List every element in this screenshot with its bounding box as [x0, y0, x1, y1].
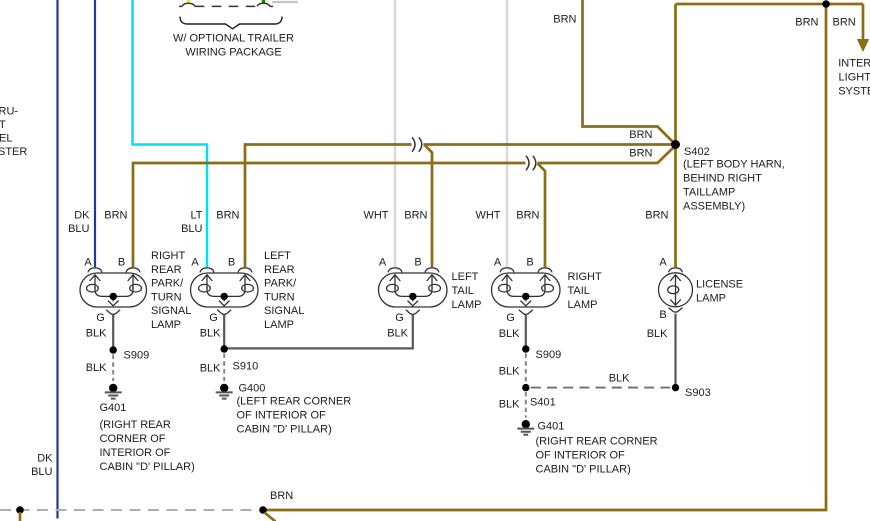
svg-text:B: B — [659, 309, 666, 321]
svg-text:ASSEMBLY): ASSEMBLY) — [683, 201, 745, 213]
wire BRN diagonal off-page — [265, 513, 276, 521]
svg-text:BRN: BRN — [216, 210, 239, 222]
wire BRN right edge drop (to bottom) — [263, 4, 826, 510]
svg-text:LIGHTING: LIGHTING — [839, 71, 870, 83]
svg-text:WIRING PACKAGE: WIRING PACKAGE — [185, 47, 281, 59]
ground G400 — [220, 384, 228, 392]
wire DK BLU (left, full height) — [56, 0, 58, 519]
lamp E3 left tail lamp — [379, 268, 448, 315]
splice S402 — [671, 140, 680, 149]
svg-text:BLK: BLK — [499, 366, 520, 378]
svg-text:G: G — [506, 312, 515, 324]
svg-text:BRN: BRN — [629, 147, 652, 159]
wire BRN stub down (bottom-left) — [19, 512, 22, 521]
wire BLK lamp E4 G to S909 (right) — [525, 315, 527, 349]
svg-text:BLK: BLK — [499, 328, 520, 340]
svg-text:OF INTERIOR OF: OF INTERIOR OF — [237, 410, 327, 422]
svg-text:BEHIND RIGHT: BEHIND RIGHT — [683, 173, 762, 185]
svg-text:S903: S903 — [685, 387, 711, 399]
lamp E2 left rear park/turn signal lamp — [191, 268, 259, 315]
svg-text:BLK: BLK — [200, 363, 221, 375]
connector C1 dashed body with pin bumps — [179, 5, 182, 7]
svg-text:BRN: BRN — [795, 16, 818, 28]
svg-text:BLK: BLK — [609, 373, 630, 385]
svg-text:RIGHT: RIGHT — [568, 271, 603, 283]
node junction bottom (BRN tee) — [259, 506, 267, 514]
svg-text:EL: EL — [0, 133, 12, 145]
svg-text:G400: G400 — [239, 383, 266, 395]
splice S909 — [110, 346, 117, 353]
wire dashed gray bottom run — [0, 509, 259, 511]
splice S909 (right) — [522, 345, 529, 352]
svg-text:A: A — [379, 256, 387, 268]
svg-text:B: B — [414, 256, 421, 268]
svg-text:WHT: WHT — [475, 210, 500, 222]
svg-text:TAIL: TAIL — [452, 285, 474, 297]
brace W/ OPTIONAL TRAILER WIRING PACKAGE — [180, 17, 282, 29]
svg-text:BRN: BRN — [629, 129, 652, 141]
svg-text:(RIGHT REAR: (RIGHT REAR — [100, 419, 171, 431]
svg-text:REAR: REAR — [151, 264, 182, 276]
svg-text:LEFT: LEFT — [264, 250, 291, 262]
svg-text:G: G — [209, 312, 218, 324]
svg-text:CABIN "D' PILLAR): CABIN "D' PILLAR) — [237, 424, 332, 436]
svg-text:S909: S909 — [536, 349, 562, 361]
node S401 junction — [522, 384, 529, 391]
svg-text:A: A — [659, 256, 667, 268]
svg-text:WHT: WHT — [363, 210, 388, 222]
svg-text:BLK: BLK — [200, 328, 221, 340]
svg-text:TAIL: TAIL — [568, 285, 590, 297]
svg-text:INTERIOR: INTERIOR — [838, 57, 870, 69]
wire BLK dashed S909 to S401 junction — [525, 354, 527, 384]
wire BLK dashed S909 to G401 — [112, 355, 114, 382]
wire green stub (trailer connector) — [262, 0, 266, 3]
wire BLK lamp E2 G down to S910 — [223, 315, 225, 349]
ground G401 (left) — [109, 384, 117, 392]
svg-text:A: A — [191, 256, 199, 268]
arrow to interior lighting systems — [857, 39, 869, 52]
label BRN (above S402 feed) — [627, 129, 654, 139]
wire DK BLU to right rear park/turn lamp pin A — [94, 0, 96, 267]
svg-text:REAR: REAR — [264, 264, 295, 276]
node junction top-right — [822, 0, 830, 8]
wire BLK lamp E3 G down and left to S910 — [224, 315, 413, 349]
svg-text:BLK: BLK — [86, 328, 107, 340]
splice S910 — [221, 345, 228, 352]
svg-text:BLK: BLK — [387, 328, 408, 340]
svg-text:CORNER OF: CORNER OF — [100, 433, 166, 445]
svg-text:G: G — [96, 312, 105, 324]
svg-text:BRN: BRN — [404, 210, 427, 222]
svg-text:BRN: BRN — [553, 13, 576, 25]
svg-text:LAMP: LAMP — [452, 299, 482, 311]
svg-text:LAMP: LAMP — [151, 319, 181, 331]
wire gray (top, to right of connector) — [272, 1, 298, 3]
lamp E4 right tail lamp — [492, 268, 561, 315]
svg-text:(LEFT REAR CORNER: (LEFT REAR CORNER — [237, 396, 352, 408]
svg-text:INTERIOR OF: INTERIOR OF — [100, 447, 171, 459]
svg-text:DK: DK — [37, 453, 53, 465]
svg-text:BRN: BRN — [833, 16, 856, 28]
svg-text:LT: LT — [190, 210, 202, 222]
svg-text:(RIGHT REAR CORNER: (RIGHT REAR CORNER — [536, 435, 658, 447]
svg-text:LICENSE: LICENSE — [696, 278, 743, 290]
svg-text:BRN: BRN — [270, 490, 293, 502]
svg-text:BLK: BLK — [647, 328, 668, 340]
svg-text:TAILLAMP: TAILLAMP — [683, 187, 735, 199]
svg-text:BLU: BLU — [181, 223, 202, 235]
svg-text:BLK: BLK — [86, 362, 107, 374]
svg-text:G401: G401 — [538, 421, 565, 433]
wire WHT to right tail lamp pin A — [506, 0, 509, 267]
wire BLK license lamp B down to S903 — [674, 314, 676, 384]
svg-text:G: G — [395, 312, 404, 324]
wire BLK dashed S401 to G401 (right) — [525, 392, 527, 418]
svg-text:LEFT: LEFT — [452, 271, 479, 283]
svg-text:A: A — [84, 256, 92, 268]
svg-text:BRN: BRN — [516, 210, 539, 222]
svg-text:LAMP: LAMP — [696, 292, 726, 304]
wire BRN branch to right tail lamp pin B — [538, 163, 546, 267]
wire BLK dashed S910 to G400 — [223, 354, 225, 382]
wire BLK lamp E1 G to S909 — [112, 315, 114, 350]
svg-text:DK: DK — [74, 210, 90, 222]
svg-text:B: B — [228, 256, 235, 268]
svg-text:G401: G401 — [100, 402, 127, 414]
svg-text:SIGNAL: SIGNAL — [151, 305, 191, 317]
crossover hop symbol on run 2 — [526, 156, 536, 170]
svg-text:TURN: TURN — [264, 291, 295, 303]
node junction bottom-left — [16, 506, 24, 514]
lamp E1 right rear park/turn signal lamp — [80, 268, 147, 315]
wire BRN stub to interior lighting systems arrow — [862, 4, 865, 40]
wire BRN top-right run with junction — [676, 3, 864, 6]
svg-text:PARK/: PARK/ — [264, 278, 297, 290]
wire yellow stub (trailer connector) — [187, 0, 191, 3]
wire WHT to left tail lamp pin A — [394, 0, 397, 267]
svg-text:BLK: BLK — [499, 399, 520, 411]
svg-text:BLU: BLU — [68, 223, 89, 235]
svg-text:LAMP: LAMP — [264, 319, 294, 331]
lamp E5 license lamp — [659, 268, 693, 312]
svg-text:S402: S402 — [684, 146, 710, 158]
svg-text:S909: S909 — [124, 350, 150, 362]
svg-text:B: B — [118, 256, 125, 268]
svg-text:B: B — [526, 256, 533, 268]
svg-text:T: T — [0, 119, 6, 131]
svg-text:OF INTERIOR OF: OF INTERIOR OF — [536, 449, 626, 461]
label BRN (below S402 feed) — [627, 147, 654, 157]
svg-text:BRN: BRN — [104, 210, 127, 222]
svg-text:S910: S910 — [233, 361, 259, 373]
svg-text:A: A — [494, 256, 502, 268]
svg-text:BLU: BLU — [31, 466, 52, 478]
wire BRN branch to left tail lamp pin B — [425, 145, 433, 267]
svg-text:RIGHT: RIGHT — [151, 250, 186, 262]
svg-text:SYSTEMS: SYSTEMS — [838, 85, 870, 97]
svg-text:W/ OPTIONAL TRAILER: W/ OPTIONAL TRAILER — [173, 33, 294, 45]
svg-text:S401: S401 — [530, 397, 556, 409]
svg-text:BRN: BRN — [645, 210, 668, 222]
svg-text:LAMP: LAMP — [568, 299, 598, 311]
svg-text:SIGNAL: SIGNAL — [264, 305, 304, 317]
svg-text:CABIN "D' PILLAR): CABIN "D' PILLAR) — [100, 461, 195, 473]
wire LT BLU to left rear park/turn lamp pin A — [133, 0, 208, 267]
wire BRN middle run 1 (left rear park/turn pin B to S402) — [245, 145, 412, 268]
wire BLK dashed S401 junction to S903 — [531, 387, 670, 389]
ground G401 (right) — [522, 420, 530, 428]
svg-text:TURN: TURN — [151, 291, 182, 303]
svg-text:(LEFT BODY HARN,: (LEFT BODY HARN, — [683, 159, 785, 171]
svg-text:CABIN "D' PILLAR): CABIN "D' PILLAR) — [536, 463, 631, 475]
wire BRN from top into S402 (upper feed) — [583, 0, 676, 145]
svg-text:STER: STER — [0, 146, 27, 158]
wire BRN from S402 down to license lamp pin A — [674, 145, 677, 268]
svg-text:PARK/: PARK/ — [151, 278, 184, 290]
wire BRN from S402 up to top-right run — [674, 4, 677, 145]
splice S903 — [672, 384, 679, 391]
crossover hop symbol on run 1 — [412, 137, 422, 151]
wire BRN middle run 2 (right rear park/turn pin B to S402) — [133, 163, 526, 267]
svg-text:RU-: RU- — [0, 106, 18, 118]
